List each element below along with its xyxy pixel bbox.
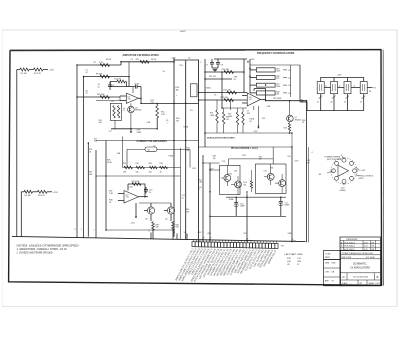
wire FF1-FF2	[324, 85, 330, 87]
svg-text:R31: R31	[123, 163, 126, 165]
wire camp stub x96	[95, 176, 97, 178]
svg-text:C7: C7	[206, 65, 208, 67]
svg-text:.1: .1	[166, 122, 168, 124]
svg-text:741: 741	[128, 99, 131, 101]
wire FF1 lower lead	[317, 94, 322, 111]
transistor Q2	[128, 103, 142, 128]
capacitor C7	[206, 59, 215, 68]
svg-text:+15V: +15V	[337, 74, 343, 76]
wire vertical x121	[120, 62, 122, 65]
svg-text:(CASE): (CASE)	[340, 189, 346, 192]
ground amplitude block	[109, 129, 142, 134]
svg-text:2: 2	[200, 62, 201, 64]
resistor R40 vertical	[172, 222, 180, 230]
svg-text:SHEET 1 OF 1: SHEET 1 OF 1	[369, 283, 381, 285]
capacitor C8a	[216, 59, 223, 68]
svg-text:1571-0316-504: 1571-0316-504	[353, 276, 369, 278]
svg-text:ECN 1042-4: ECN 1042-4	[344, 246, 354, 248]
node label R29	[273, 98, 282, 100]
svg-text:R33: R33	[284, 128, 287, 130]
svg-text:FREQUENCY CW MODULATORS: FREQUENCY CW MODULATORS	[257, 52, 295, 55]
ground camp	[131, 203, 137, 224]
wire camp vertical x180 seg	[180, 148, 182, 239]
resistor RN1 box2	[250, 75, 291, 80]
wire lfo vertical x203	[202, 155, 204, 242]
wire camp horizontal y176	[96, 175, 181, 177]
svg-text:R36 100K: R36 100K	[132, 181, 141, 183]
wire input stub rail	[119, 96, 121, 101]
svg-text:6-70: 6-70	[364, 242, 368, 244]
node +15V input chain 2	[47, 192, 58, 194]
node block title CURRENT CW AMPLIFIERS	[137, 140, 168, 143]
wire divider bus to left	[300, 102, 321, 111]
transistor Q5a	[221, 165, 231, 186]
svg-text:R33: R33	[149, 163, 152, 165]
svg-text:4.7: 4.7	[123, 110, 126, 112]
node +15V freq	[248, 59, 255, 63]
svg-text:1M: 1M	[176, 120, 179, 122]
resistor RN1 box1	[250, 68, 291, 73]
wire U3 feedback	[130, 184, 145, 197]
svg-text:R20 10K: R20 10K	[222, 69, 230, 71]
svg-text:6-71: 6-71	[364, 246, 368, 248]
wire freq bottom y133	[205, 132, 292, 134]
wire RN1 left rail	[249, 59, 251, 93]
resistor R32r	[136, 163, 145, 174]
svg-text:47: 47	[360, 102, 362, 104]
node +15V out right	[294, 160, 311, 164]
node arrow out right	[301, 100, 304, 102]
wire horizontal y76	[84, 76, 130, 78]
svg-text:R29 200K: R29 200K	[273, 98, 282, 100]
svg-text:R4 4.7K: R4 4.7K	[38, 195, 46, 197]
svg-text:+15: +15	[288, 85, 291, 87]
node label R17	[151, 100, 154, 104]
svg-text:+15: +15	[288, 70, 291, 72]
resistor R31r	[123, 163, 133, 174]
svg-text:741: 741	[249, 99, 252, 101]
svg-text:PITCH CONTROL ( LFO ): PITCH CONTROL ( LFO )	[231, 148, 258, 150]
wire freq vertical x292b	[291, 133, 293, 147]
svg-text:DRN: DRN	[325, 262, 330, 264]
table title block main	[340, 251, 381, 286]
wire camp left rail x106	[105, 141, 107, 231]
wire freq horizontal y100	[199, 99, 248, 101]
wire lfo bottom y216	[210, 215, 286, 217]
svg-text:+15V: +15V	[207, 233, 212, 235]
wire horizontal y65	[77, 64, 121, 66]
svg-text:Q4: Q4	[165, 218, 167, 220]
svg-text:48521: 48521	[325, 257, 330, 259]
wire divider bottom bus	[321, 110, 364, 112]
node block title AMPLITUDE CW MODULATORS	[123, 54, 160, 57]
wire input chain 2 horizontal	[21, 191, 24, 193]
wire lfo top y147	[199, 146, 293, 148]
wire pinout leader right2	[355, 175, 374, 180]
svg-text:R56: R56	[270, 168, 273, 170]
svg-text:NEW YORK: NEW YORK	[342, 257, 352, 259]
wire FF2-FF3	[338, 85, 345, 87]
capacitor C1	[108, 82, 114, 90]
flip-flop FF1	[317, 82, 324, 94]
svg-text:JW: JW	[371, 246, 374, 248]
svg-text:7: 7	[94, 230, 95, 232]
resistor R12 R13 cluster box	[110, 101, 125, 120]
svg-text:3: 3	[75, 229, 76, 231]
svg-text:4: 4	[312, 152, 313, 154]
svg-text:MODULATION SWITCHING: MODULATION SWITCHING	[207, 136, 235, 139]
wire freq vertical x244	[243, 59, 245, 93]
svg-text:R1 10K: R1 10K	[21, 73, 28, 75]
op-amp U1	[120, 93, 138, 103]
wire vertical x129 upper	[128, 77, 130, 88]
svg-text:R32: R32	[136, 163, 139, 165]
svg-text:LAST PART USED: LAST PART USED	[285, 253, 304, 256]
svg-text:10: 10	[98, 86, 100, 88]
wire U1 output	[138, 98, 141, 104]
flip-flop FF2	[331, 82, 338, 94]
svg-text:C5 30: C5 30	[134, 84, 139, 86]
svg-text:F8: F8	[369, 91, 371, 93]
wire right rail x308	[308, 147, 310, 242]
transistor Q6a	[264, 164, 274, 185]
wire input chain 1 vertical	[16, 70, 18, 237]
svg-text:5%: 5%	[190, 110, 193, 112]
wire horizontal y97	[77, 96, 120, 98]
wire rail tick C	[94, 230, 97, 238]
svg-text:R21 1M: R21 1M	[209, 76, 216, 78]
wire freq y108	[222, 107, 247, 109]
svg-text:C6: C6	[188, 58, 190, 60]
svg-text:1: 1	[176, 95, 177, 97]
wire lfo horizontal y170	[210, 169, 220, 171]
flip-flop FF4	[360, 82, 367, 94]
wire x253 drop	[253, 106, 255, 110]
svg-text:R7: R7	[94, 62, 96, 64]
resistor R3	[24, 190, 33, 197]
svg-text:RJM: RJM	[332, 262, 336, 264]
op-amp U4 pinout circle	[331, 158, 357, 184]
svg-text:R53: R53	[243, 155, 246, 157]
wire rail tick B	[81, 229, 84, 238]
resistor R2	[34, 68, 44, 75]
transistor Q1	[287, 100, 301, 122]
svg-text:CV MODULATORS: CV MODULATORS	[350, 266, 370, 269]
wire freq right vertical x300	[299, 65, 301, 102]
wire camp resistor row rail	[123, 167, 181, 169]
svg-text:(BOTTOM VIEW): (BOTTOM VIEW)	[327, 159, 342, 161]
wire horizontal y60 right	[174, 59, 199, 61]
wire lfo horizontal y163	[203, 162, 220, 164]
wire left rail x77	[76, 65, 78, 231]
svg-text:1%: 1%	[214, 94, 217, 96]
resistor R33v vertical	[284, 122, 291, 133]
svg-text:13: 13	[184, 232, 186, 234]
flip-flop FF3	[344, 82, 351, 94]
svg-text:+15: +15	[288, 77, 291, 79]
inductor L1 rounded box	[127, 147, 190, 168]
svg-text:+15: +15	[109, 131, 112, 133]
resistor R39 vertical	[152, 222, 160, 230]
wire freq vertical x230	[230, 100, 232, 110]
capacitor C10	[144, 187, 152, 194]
svg-text:2.2M: 2.2M	[198, 182, 202, 184]
svg-text:C8: C8	[221, 65, 223, 67]
wire y59 freq top	[214, 58, 247, 60]
svg-text:39: 39	[149, 192, 151, 194]
svg-text:R9 20K: R9 20K	[96, 74, 103, 76]
wire lfo connect y158	[229, 147, 274, 165]
wire lfo right vertical x292	[291, 147, 293, 242]
svg-text:+15V: +15V	[294, 161, 299, 163]
svg-text:V+ OUT: V+ OUT	[359, 170, 367, 172]
svg-text:1. RESISTORS, OVERALL OHMS, 1/: 1. RESISTORS, OVERALL OHMS, 1/4 W	[17, 248, 68, 251]
node block label MODULATION SWITCHING	[207, 136, 235, 139]
wire lfo vertical x210	[209, 163, 211, 242]
svg-text:CODE: CODE	[325, 253, 331, 255]
node +15V input chain 1	[43, 70, 54, 72]
node notes text	[16, 246, 79, 255]
wire FF3 lower lead	[344, 94, 349, 111]
svg-text:R8 1K: R8 1K	[106, 59, 112, 61]
wire rail tick A	[75, 229, 78, 238]
wire U2 feedback	[254, 89, 266, 100]
capacitor C17 electrolytic	[278, 197, 290, 216]
resistor R24b vertical	[242, 108, 250, 133]
wire top horizontal y62	[121, 61, 174, 63]
svg-text:C18: C18	[287, 156, 290, 158]
wire camp left rail x88	[87, 143, 89, 237]
op-amp U2	[242, 93, 260, 106]
wire camp vertical x122	[122, 137, 124, 168]
capacitor C16 electrolytic	[234, 197, 246, 216]
svg-text:470: 470	[136, 59, 139, 61]
svg-text:C13: C13	[222, 161, 225, 163]
wire input chain 1 horizontal	[17, 69, 20, 71]
node junction dots	[76, 61, 307, 231]
svg-text:R6 1K: R6 1K	[151, 59, 157, 61]
wire long vertical x174	[173, 58, 175, 237]
wire x129 link	[128, 62, 130, 77]
resistor R32v vertical	[222, 108, 229, 133]
wire long vertical x198	[198, 60, 200, 242]
wire rail tick D	[149, 231, 152, 239]
wire pinout leader right1	[355, 167, 367, 172]
wire freq top right y65	[250, 65, 300, 97]
resistor R24 vertical	[228, 108, 239, 133]
wire lfo end ticks	[202, 237, 293, 241]
node label R8	[106, 59, 112, 61]
wire R3-R4	[33, 191, 38, 193]
svg-text:45: 45	[344, 102, 346, 104]
wire freq horizontal y72	[205, 71, 244, 73]
wire long vertical x185	[185, 61, 187, 240]
wire freq vertical x222	[221, 72, 223, 108]
transistor Q4a	[164, 203, 175, 221]
wire Q4 to rail	[172, 221, 174, 239]
svg-text:300: 300	[176, 89, 179, 91]
svg-text:.1: .1	[198, 189, 200, 191]
transistor Q5b	[231, 176, 241, 195]
wire FF3-FF4	[351, 85, 360, 87]
svg-text:+15: +15	[288, 93, 291, 95]
svg-text:CURRENT CW AMPLIFIERS: CURRENT CW AMPLIFIERS	[137, 140, 168, 143]
wire terminal strip ticks	[194, 239, 277, 243]
ground freq mid	[254, 106, 260, 133]
resistor R20	[222, 69, 234, 73]
wire bottom bus rail	[12, 236, 306, 241]
svg-text:C15: C15	[264, 170, 267, 172]
wire pinout leader left	[318, 171, 333, 176]
svg-text:NOTES: UNLESS OTHERWISE SPECIF: NOTES: UNLESS OTHERWISE SPECIFIED	[17, 246, 79, 248]
node block title PITCH CONTROL LFO	[231, 148, 258, 150]
svg-text:-15V: -15V	[131, 222, 136, 224]
svg-text:2. CHASSIS AND FRAME GROUND: 2. CHASSIS AND FRAME GROUND	[16, 252, 53, 255]
table approvals column	[324, 251, 341, 286]
resistor R7	[94, 62, 110, 66]
node misc value labels	[86, 62, 372, 201]
svg-text:270: 270	[151, 102, 154, 104]
wire FF2 lower lead	[330, 94, 335, 111]
wire freq horizontal y92	[199, 92, 248, 94]
svg-text:+15V: +15V	[53, 192, 59, 194]
ground freq caps	[212, 68, 218, 72]
resistor R15 vertical	[156, 103, 166, 129]
svg-text:A2: A2	[148, 149, 150, 152]
wire rail tick F	[184, 232, 188, 239]
svg-text:+15V: +15V	[171, 58, 177, 60]
wire Q3 to rail	[152, 221, 154, 239]
svg-text:R19: R19	[180, 65, 183, 67]
svg-text:2N3904: 2N3904	[135, 110, 141, 112]
wire U2 output bus	[260, 100, 306, 102]
node block title FREQUENCY CW MODULATORS	[257, 52, 295, 55]
svg-text:SCHEMATIC,: SCHEMATIC,	[353, 263, 367, 266]
svg-text:JW: JW	[371, 242, 374, 244]
node label Q5 pair	[229, 171, 238, 176]
svg-text:9: 9	[149, 231, 150, 233]
wire pinout leader bottom	[340, 183, 346, 192]
op-amp U3	[118, 191, 148, 204]
wire camp y203 rail	[139, 202, 171, 204]
svg-text:R10 20K: R10 20K	[97, 94, 105, 96]
svg-text:R3 10K: R3 10K	[25, 195, 32, 197]
wire output bus y103	[141, 103, 199, 104]
svg-text:REVISIONS: REVISIONS	[347, 239, 359, 241]
transistor Q6b	[275, 174, 286, 193]
svg-text:AMPLITUDE CW MODULATORS: AMPLITUDE CW MODULATORS	[123, 54, 160, 57]
wire cluster bottom	[111, 120, 131, 129]
svg-text:10: 10	[182, 197, 184, 199]
resistor R5	[131, 59, 157, 63]
wire freq horizontal y79	[205, 78, 232, 80]
svg-text:R58A: R58A	[229, 198, 234, 201]
svg-text:5%: 5%	[163, 71, 166, 73]
svg-text:49.9K: 49.9K	[107, 162, 113, 164]
wire y140 bottom of amplitude block	[96, 140, 199, 142]
svg-text:R22 20K: R22 20K	[224, 90, 232, 92]
resistor R11 upper feedback	[110, 79, 126, 87]
resistor R36 feedback	[128, 181, 141, 190]
connector TB1 terminal strip	[192, 242, 278, 249]
wire lfo vertical x247	[246, 193, 248, 242]
wire FF4 lower lead	[360, 94, 365, 111]
resistor RN1 box4	[250, 91, 291, 96]
svg-text:R2 4.7K: R2 4.7K	[34, 73, 42, 75]
svg-text:R11 1M: R11 1M	[115, 79, 122, 81]
svg-text:33: 33	[234, 79, 236, 81]
node LAST PART USED table	[285, 253, 304, 266]
svg-text:Q3: Q3	[145, 218, 147, 220]
table revision block	[340, 237, 381, 251]
wire divider top bus	[321, 78, 364, 82]
wire left rail x96	[95, 150, 97, 232]
wire pinout leader top	[325, 155, 345, 161]
node sub-box right	[255, 164, 286, 193]
svg-text:INPUT: INPUT	[359, 178, 365, 180]
svg-text:N.Y. 10036: N.Y. 10036	[366, 257, 375, 259]
resistor R34r	[160, 163, 168, 174]
svg-text:ECN 1042-3: ECN 1042-3	[344, 242, 354, 244]
node +15V top	[171, 58, 177, 62]
wire FF4 output	[367, 88, 376, 90]
svg-text:360: 360	[94, 141, 97, 143]
wire divider top stubs	[334, 78, 348, 82]
svg-text:741: 741	[126, 197, 129, 199]
svg-text:41: 41	[317, 102, 319, 104]
svg-text:+15V: +15V	[49, 70, 55, 72]
resistor R23	[221, 97, 234, 101]
wire camp bottom y230	[106, 229, 174, 231]
node sub-box left	[220, 165, 240, 194]
wire right rail x306	[306, 101, 308, 243]
resistor R31v vertical	[210, 100, 218, 133]
node label R21	[209, 76, 216, 78]
transistor Q3	[144, 203, 155, 221]
svg-text:R34: R34	[160, 163, 163, 165]
resistor R10	[97, 94, 110, 98]
svg-text:OCTAVE PLATEAU ELECTRONICS INC: OCTAVE PLATEAU ELECTRONICS INC.	[342, 252, 375, 255]
wire R1-R2	[29, 69, 34, 71]
svg-text:SCALE: SCALE	[342, 282, 349, 285]
connector J1 narrow box	[191, 84, 198, 97]
svg-text:.047: .047	[247, 113, 251, 115]
wire freq vertical x205	[204, 59, 206, 147]
svg-text:5: 5	[81, 229, 82, 231]
svg-text:R42: R42	[193, 168, 196, 170]
resistor R22	[224, 90, 237, 94]
sheet border frame	[9, 50, 384, 286]
resistor R33r	[149, 163, 158, 174]
resistor R54 vertical	[244, 170, 253, 192]
resistor R9	[96, 74, 110, 78]
wire rail tick E	[174, 232, 178, 239]
wire lfo mid horizontal y197	[226, 196, 286, 198]
svg-text:F4: F4	[374, 88, 376, 90]
svg-text:43: 43	[330, 102, 332, 104]
svg-text:2N5458: 2N5458	[295, 119, 301, 121]
node label Q6 pair	[264, 168, 274, 173]
resistor R1	[20, 68, 29, 75]
wire y128 right	[131, 128, 157, 130]
wire left rail x83	[83, 77, 85, 231]
wire U1 top lead	[132, 87, 134, 94]
resistor R4	[38, 190, 48, 197]
svg-text:L4.7: L4.7	[111, 101, 115, 103]
svg-text:R52: R52	[229, 173, 232, 175]
wire input chain 2 vertical	[20, 192, 22, 237]
svg-text:D: D	[342, 275, 344, 279]
